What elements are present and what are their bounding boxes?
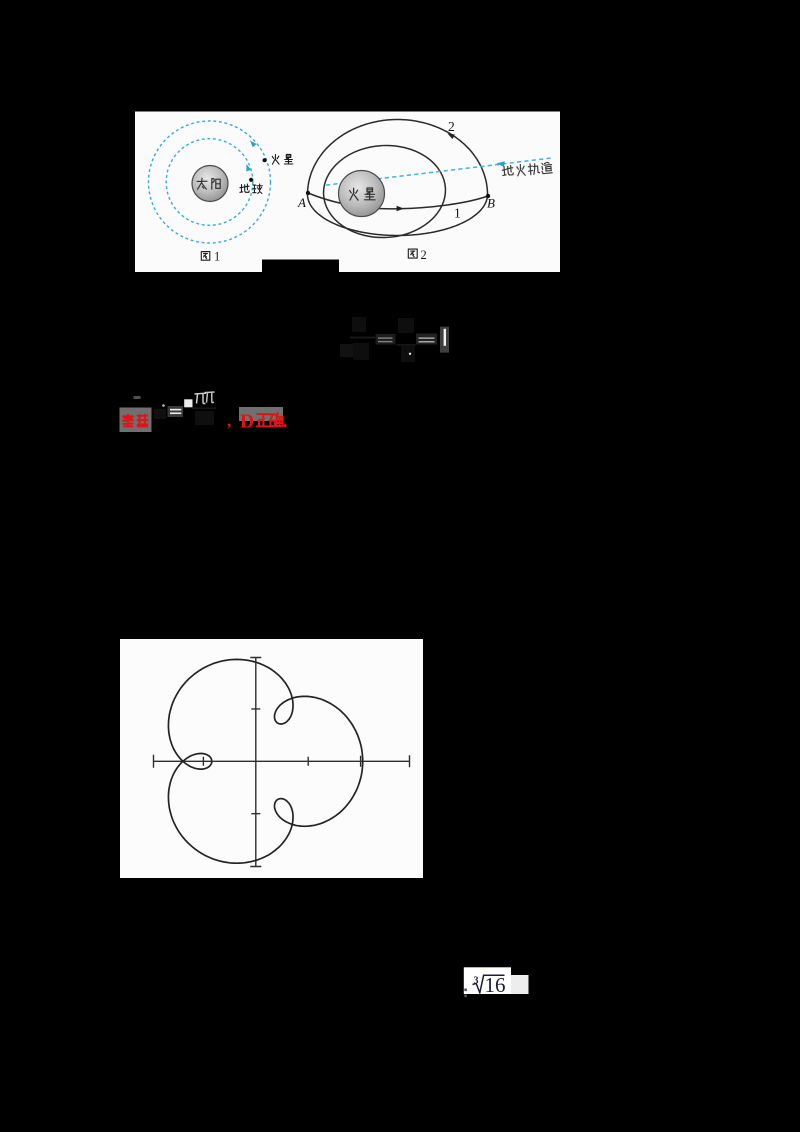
ghost formula: left fraction faint glyphs — [352, 317, 366, 332]
fig2 orbit ellipse 2 (outer) — [308, 120, 488, 236]
x axis unit ticks — [203, 756, 360, 767]
figure panel white background — [135, 112, 560, 273]
fig2 caption tu2 — [408, 249, 417, 258]
red line: faint MM denominator — [195, 411, 214, 425]
y axis end ticks — [250, 658, 261, 867]
ghost formula: the digit 1 — [440, 327, 449, 353]
fig1 label huoxing (Mars) — [272, 155, 279, 165]
fig2 point A dot — [306, 191, 310, 195]
fig1 caption tu1 — [201, 252, 210, 261]
fig1 inner orbit arrow — [246, 164, 251, 171]
fig2 label dihuoguidao (Earth-Mars orbit) — [502, 162, 552, 177]
red line: white pi pi — [195, 393, 207, 403]
fig1 outer dashed orbit (Mars orbit) — [149, 121, 271, 243]
fig2 dashed transfer line (di-huo orbit) — [326, 158, 551, 185]
ghost formula: middle fraction faint glyphs — [398, 318, 414, 333]
red line: gray box with red chars — [120, 408, 152, 433]
polar plot white background — [120, 639, 423, 878]
epitrochoid curve — [168, 659, 362, 863]
cuberoot16 radical sign — [473, 975, 505, 993]
fig2 transfer arc arrow — [397, 206, 405, 212]
red line: white equals — [168, 406, 184, 417]
svg-text:1: 1 — [454, 206, 461, 221]
fig1 Earth dot — [249, 178, 253, 182]
small colon dots left of box — [464, 989, 467, 992]
red line: white block — [184, 399, 192, 407]
black notch over figure panel bottom edge — [262, 260, 339, 273]
fig2 orbit 2 arrow — [448, 134, 455, 140]
fig2 dashed line arrowhead — [497, 161, 505, 167]
svg-text:,: , — [227, 411, 231, 430]
red line: faint k= glyphs — [134, 396, 141, 399]
svg-text:.: . — [283, 411, 288, 431]
polar y axis — [255, 658, 257, 867]
fig2 label huoxing (Mars) — [350, 188, 358, 200]
fig2 Mars sphere — [339, 171, 385, 217]
svg-text:A: A — [297, 195, 306, 210]
fig2 point B dot — [486, 194, 490, 198]
cuberoot16 gray side box — [511, 975, 529, 994]
ghost formula: equals sign 1 — [376, 334, 396, 345]
svg-text:B: B — [487, 196, 495, 211]
ghost formula: equals sign 2 — [416, 334, 437, 345]
x axis end ticks — [154, 755, 410, 768]
fig1 Mars dot — [263, 158, 267, 162]
red line: gray box behind D — [239, 407, 283, 421]
svg-text:D: D — [240, 412, 254, 433]
polar x axis — [154, 760, 410, 762]
fig1 outer orbit arrow — [250, 141, 257, 148]
fig1 label taiyang (sun) — [197, 178, 207, 189]
fig1 inner dashed orbit (Earth orbit) — [166, 139, 253, 226]
fig1 label diqiu (Earth) — [240, 184, 249, 192]
svg-text:16: 16 — [485, 973, 506, 997]
fig2 transfer arc A to B — [308, 193, 488, 209]
svg-text:2: 2 — [448, 119, 455, 134]
y axis unit ticks — [251, 709, 260, 814]
cuberoot16 white box — [464, 967, 511, 994]
fig2 orbit ellipse 1 (inner) — [321, 142, 448, 240]
svg-text:1: 1 — [214, 250, 220, 264]
svg-text:2: 2 — [421, 248, 427, 262]
